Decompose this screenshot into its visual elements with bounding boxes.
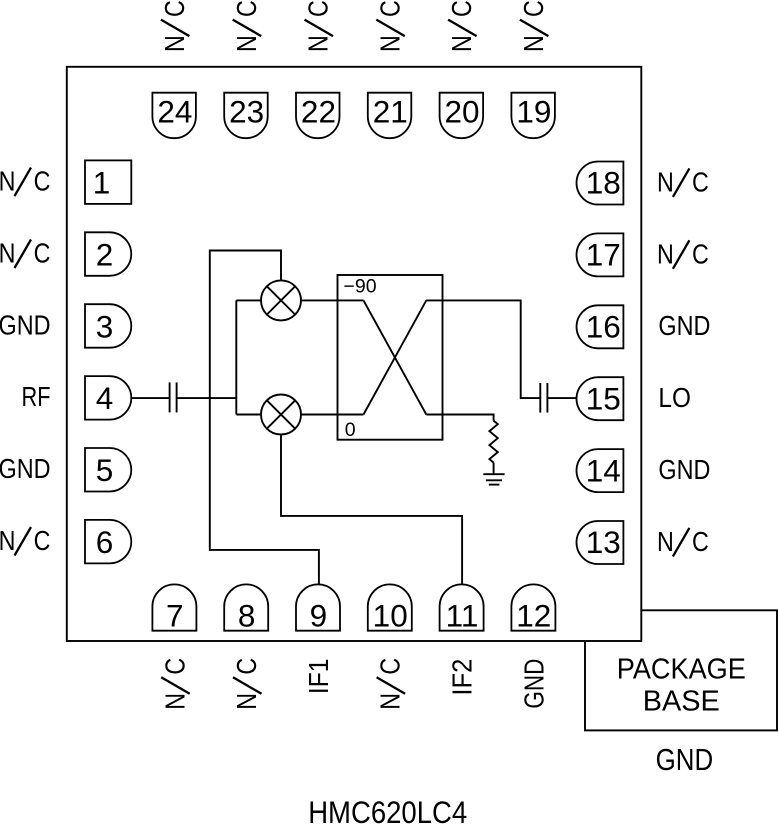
svg-text:GND: GND (0, 309, 51, 340)
pin 20 (440, 93, 484, 139)
capacitor C1 plate right (176, 382, 178, 412)
svg-text:13: 13 (586, 524, 621, 560)
label N/C pin23 (232, 0, 262, 52)
svg-text:8: 8 (238, 597, 256, 633)
svg-text:GND: GND (0, 453, 51, 484)
pin 15 (577, 377, 624, 420)
mixer M1 (261, 280, 301, 320)
svg-text:LO: LO (658, 382, 691, 413)
svg-text:21: 21 (373, 94, 408, 130)
wire resistor to ground (493, 463, 495, 475)
pin 18 (577, 162, 624, 205)
svg-text:9: 9 (310, 597, 328, 633)
hybrid diagonal 1 (364, 300, 427, 414)
capacitor C2 plate right (546, 383, 548, 413)
pin 21 (368, 93, 412, 139)
svg-text:2: 2 (96, 236, 114, 272)
label N/C pin17 (657, 240, 709, 270)
svg-text:IF1: IF1 (303, 659, 334, 695)
label N/C pin10 (376, 658, 406, 710)
svg-text:10: 10 (373, 597, 408, 633)
ground (483, 474, 504, 484)
pin 19 (511, 93, 555, 139)
svg-text:GND: GND (658, 310, 710, 341)
label N/C pin18 (657, 168, 709, 198)
svg-text:−90: −90 (343, 275, 376, 297)
pin 23 (224, 93, 268, 139)
pin 3 (85, 304, 131, 348)
svg-text:20: 20 (445, 94, 480, 130)
wire to mixer M1 input (236, 299, 261, 301)
label N/C pin22 (304, 0, 334, 52)
wire mixer M1 IF loop (210, 251, 319, 585)
svg-text:15: 15 (586, 380, 621, 416)
label N/C pin2 (0, 239, 50, 269)
pin 17 (577, 233, 624, 276)
pin 8 (224, 584, 268, 630)
svg-text:14: 14 (586, 452, 621, 488)
capacitor C1 plate left (169, 382, 171, 412)
pin 6 (85, 520, 131, 564)
mixer M2 (261, 395, 301, 435)
label N/C pin21 (376, 0, 406, 52)
svg-text:0: 0 (345, 419, 356, 441)
svg-text:GND: GND (518, 659, 549, 709)
hybrid diagonal 2 (364, 300, 427, 414)
svg-text:6: 6 (96, 524, 114, 560)
svg-text:GND: GND (658, 454, 710, 485)
wire mixer M2 to hybrid (301, 414, 364, 416)
pin 24 (152, 93, 196, 139)
svg-text:19: 19 (516, 94, 551, 130)
label N/C pin8 (232, 658, 262, 710)
pin 2 (85, 232, 131, 275)
wire mixer M2 IF to pin 11 (281, 435, 462, 585)
pin 4 (85, 376, 131, 420)
svg-text:3: 3 (96, 308, 114, 344)
label N/C pin7 (161, 658, 191, 710)
wire capacitor to splitter node (177, 397, 237, 399)
label N/C pin24 (160, 0, 190, 52)
pin 13 (577, 521, 624, 564)
svg-text:RF: RF (22, 381, 51, 412)
pin 5 (85, 448, 131, 492)
svg-text:22: 22 (301, 94, 336, 130)
svg-text:HMC620LC4: HMC620LC4 (308, 794, 467, 827)
pin 11 (440, 584, 484, 630)
label N/C pin1 (0, 167, 50, 197)
label N/C pin20 (447, 0, 477, 52)
wire splitter vertical (235, 300, 237, 414)
package base box (585, 610, 777, 730)
label N/C pin13 (657, 527, 709, 557)
pin 14 (577, 449, 624, 492)
pin 16 (577, 305, 624, 348)
pin 7 (152, 584, 196, 630)
pin 12 (511, 584, 555, 630)
capacitor C2 plate left (539, 383, 541, 413)
pin 1 (85, 160, 131, 204)
svg-text:7: 7 (166, 597, 184, 633)
wire to mixer M2 input (236, 414, 261, 416)
label N/C pin6 (0, 526, 50, 556)
svg-text:PACKAGE: PACKAGE (617, 653, 746, 685)
pin 10 (368, 584, 412, 630)
wire mixer M1 to hybrid (301, 299, 364, 301)
svg-text:IF2: IF2 (447, 659, 478, 696)
wire hybrid termination port (426, 415, 493, 421)
wire RF pin4 to capacitor (131, 397, 169, 399)
svg-text:17: 17 (586, 237, 621, 273)
svg-text:1: 1 (93, 165, 111, 201)
hybrid coupler U1 box (338, 275, 443, 440)
resistor R1 (489, 421, 497, 463)
label N/C pin19 (519, 0, 549, 52)
svg-text:5: 5 (96, 452, 114, 488)
svg-text:11: 11 (446, 597, 479, 633)
svg-text:18: 18 (586, 165, 621, 201)
wire hybrid LO port (426, 300, 540, 398)
svg-text:BASE: BASE (643, 686, 720, 718)
svg-text:4: 4 (96, 380, 114, 416)
pin 9 (296, 584, 340, 630)
svg-text:GND: GND (656, 742, 714, 777)
package outline (67, 67, 642, 641)
svg-text:12: 12 (516, 597, 551, 633)
svg-text:16: 16 (586, 309, 621, 345)
wire capacitor to pin 15 LO (547, 397, 576, 399)
svg-text:23: 23 (229, 94, 264, 130)
svg-text:24: 24 (157, 94, 192, 130)
pin 22 (296, 93, 340, 139)
